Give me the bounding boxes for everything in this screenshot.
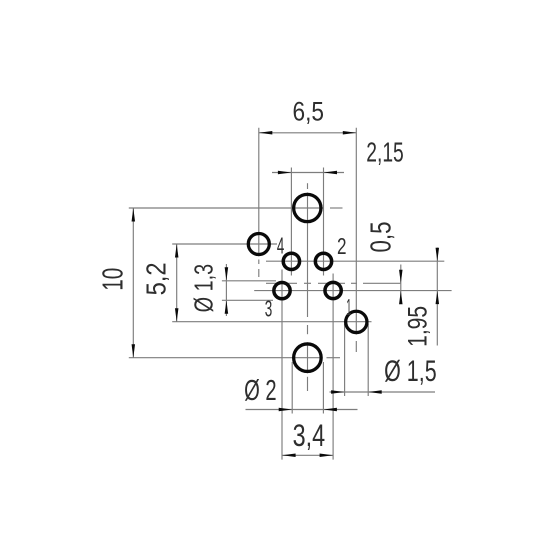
svg-text:3,4: 3,4 — [293, 417, 326, 453]
wire pin 3 vertical extension — [281, 270, 283, 460]
dimension 0,5 line — [400, 265, 402, 304]
hole top diameter 2 — [294, 194, 321, 221]
dimension diameter 2 line — [246, 409, 358, 411]
wire extension line left hole vertical — [258, 128, 260, 277]
hole bottom diameter 2 — [294, 344, 322, 372]
wire horizontal centerline — [266, 282, 401, 284]
pin 2 hole diameter 1,3 — [315, 253, 331, 269]
wire left hole horizontal centerline — [172, 243, 277, 245]
pin 3 hole diameter 1,3 — [274, 282, 290, 298]
svg-text:2,15: 2,15 — [366, 136, 404, 167]
svg-text:Ø 1,5: Ø 1,5 — [384, 355, 437, 388]
svg-text:5,2: 5,2 — [141, 262, 172, 295]
svg-text:4: 4 — [277, 233, 284, 259]
wire pin 1 vertical extension — [332, 274, 334, 460]
wire pin row 3-1 centerline — [254, 290, 451, 292]
svg-text:10: 10 — [98, 268, 130, 291]
svg-text:1: 1 — [346, 294, 351, 320]
wire pin 4 vertical extension — [290, 168, 292, 276]
dimension diameter 1,5 line — [330, 391, 436, 393]
svg-text:1,95: 1,95 — [403, 306, 433, 347]
svg-text:Ø 2: Ø 2 — [244, 375, 277, 407]
wire extension line right hole vertical — [355, 128, 357, 352]
wire pin 2 vertical extension — [323, 168, 325, 276]
svg-text:3: 3 — [265, 296, 273, 322]
dimension 3,4 line — [282, 454, 333, 456]
dimension diameter 1,3 line — [225, 264, 227, 316]
wire top hole horizontal centerline — [129, 207, 343, 209]
svg-text:6,5: 6,5 — [293, 97, 325, 127]
pin 4 hole diameter 1,3 — [283, 253, 299, 269]
hole left diameter 1,5 — [248, 234, 269, 255]
hole right diameter 1,5 — [346, 311, 367, 332]
pin 1 hole diameter 1,3 — [325, 282, 341, 298]
svg-text:Ø 1,3: Ø 1,3 — [189, 264, 219, 313]
wire right hole horizontal centerline — [172, 321, 371, 323]
dimension 1,95 line — [436, 248, 438, 346]
dimension 10 line — [132, 208, 134, 358]
wire bottom hole horizontal centerline — [129, 357, 340, 359]
svg-text:0,5: 0,5 — [366, 222, 398, 253]
dimension 6,5 line — [259, 132, 357, 134]
dimension 5,2 line — [176, 244, 178, 322]
dimension 2,15 line — [272, 172, 344, 174]
wire vertical centerline — [307, 183, 309, 391]
wire pin row 4-2 centerline — [266, 260, 444, 262]
svg-text:2: 2 — [337, 233, 347, 259]
